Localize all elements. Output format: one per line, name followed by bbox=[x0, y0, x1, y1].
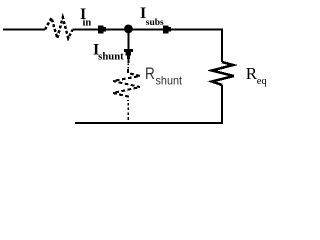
wire right vertical lower bbox=[221, 85, 223, 124]
arrow I_subs (right) bbox=[163, 25, 173, 33]
svg-text:eq: eq bbox=[257, 76, 268, 87]
wire right vertical upper bbox=[221, 29, 223, 62]
svg-text:shunt: shunt bbox=[156, 73, 183, 87]
svg-text:shunt: shunt bbox=[98, 52, 124, 63]
wire top (input resistor to top-right corner) bbox=[73, 29, 223, 31]
svg-text:R: R bbox=[145, 65, 155, 83]
wire shunt vertical from node bbox=[127, 33, 129, 51]
resistor R_shunt (dashed zigzag) bbox=[113, 69, 140, 101]
wire bottom bbox=[75, 122, 223, 124]
wire dotted above shunt resistor bbox=[127, 64, 129, 70]
svg-text:subs: subs bbox=[146, 18, 164, 28]
wire input left bbox=[3, 29, 45, 31]
arrow I_in (right) bbox=[98, 25, 108, 33]
resistor R_eq zigzag bbox=[212, 62, 234, 85]
arrow I_shunt (down) bbox=[124, 49, 133, 63]
wire dotted below shunt resistor bbox=[127, 103, 129, 123]
node junction bbox=[124, 25, 133, 34]
svg-text:in: in bbox=[83, 18, 92, 29]
resistor input (dashed zigzag, unlabeled) bbox=[45, 18, 73, 39]
